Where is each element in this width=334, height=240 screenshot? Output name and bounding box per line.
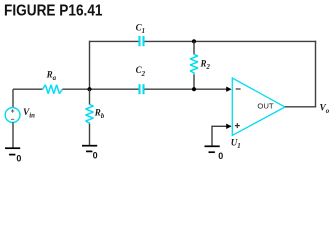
svg-text:C1: C1 [136,23,145,36]
svg-text:R2: R2 [200,59,211,72]
wire output from op-amp to corner [285,106,316,108]
wire middle from Vin corner to Ra [13,88,43,90]
svg-text:Rb: Rb [94,108,105,121]
wire plus input with arrowhead [212,124,232,146]
svg-text:FIGURE P16.41: FIGURE P16.41 [4,3,103,20]
voltage source Vin [5,89,20,148]
svg-text:C2: C2 [136,65,146,78]
junction dot on top wire at R2 [192,39,196,43]
svg-text:OUT: OUT [257,102,274,111]
wire middle from Ra to C2 [62,88,138,90]
capacitor C1 [140,36,144,46]
svg-text:Vin: Vin [23,108,35,120]
svg-text:Vo: Vo [320,104,330,116]
svg-text:0: 0 [93,150,98,160]
wire right vertical from top wire down to output corner [315,41,317,107]
svg-text:U1: U1 [231,137,241,150]
svg-text:0: 0 [16,154,21,164]
svg-text:0: 0 [218,151,223,161]
resistor Rb (vertical) [86,89,94,145]
op-amp U1 [232,78,285,135]
ground below Vin [5,148,20,154]
ground at op-amp plus input [205,146,220,152]
figure title [4,3,103,20]
ground below Rb [82,146,97,152]
junction dot at R2 bottom on middle wire [192,87,196,91]
wire top feedback (left segment to C1) [90,40,139,42]
wire middle from C2 to op-amp minus input with arrowhead [144,87,231,92]
wire left vertical from top wire down to node A [89,41,91,89]
capacitor C2 [140,84,144,94]
resistor R2 (vertical) [190,41,198,89]
wire top feedback (C1 to right corner) [144,40,316,42]
node A junction dot [87,87,91,91]
svg-text:Ra: Ra [46,70,57,83]
resistor Ra (horizontal) [43,85,63,94]
